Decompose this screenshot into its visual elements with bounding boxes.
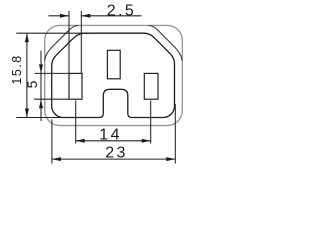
- dimension 14 extension line right: [150, 101, 152, 144]
- svg-text:15.8: 15.8: [10, 54, 24, 84]
- dimension 5 arrowheads: [39, 64, 43, 73]
- outer chamfer edge top-right: [148, 26, 182, 61]
- outer body outline: [45, 25, 183, 125]
- dimension 2.5 arrowheads: [60, 14, 69, 18]
- pin slot left: [69, 73, 82, 99]
- dimension 2.5 extension line left: [68, 11, 70, 74]
- dimension 23 extension line right: [174, 104, 176, 164]
- dimension 15.8 arrowheads: [25, 33, 29, 42]
- dimension 2.5 line with leader: [49, 15, 70, 17]
- outer chamfer edge top-left: [45, 26, 79, 61]
- dimension 23 line: [52, 158, 175, 160]
- svg-text:14: 14: [99, 126, 122, 143]
- dimension 5 extension line top: [35, 72, 70, 74]
- pin slot right: [144, 73, 158, 99]
- dimension 15.8 extension line top: [16, 32, 90, 34]
- dimension 5 line (outside arrows): [40, 51, 42, 121]
- svg-text:23: 23: [105, 145, 128, 162]
- svg-text:5: 5: [24, 80, 40, 88]
- mating face outline 23x15.8 with center bump: [52, 33, 175, 117]
- dimension 5 extension line bottom: [34, 98, 69, 100]
- dimension 14 extension line left: [75, 101, 77, 144]
- dimension 23 extension line left: [51, 120, 53, 164]
- dimension 2.5 extension line right: [80, 11, 82, 74]
- svg-text:2.5: 2.5: [107, 2, 136, 19]
- dimension 15.8 extension line bottom: [16, 117, 64, 119]
- dimension 23 arrowheads: [52, 157, 61, 161]
- dimension 15.8 line: [26, 33, 28, 117]
- dimension 14 arrowheads: [76, 139, 85, 143]
- pin slot middle (earth): [107, 50, 120, 79]
- dimension 14 line: [76, 140, 151, 142]
